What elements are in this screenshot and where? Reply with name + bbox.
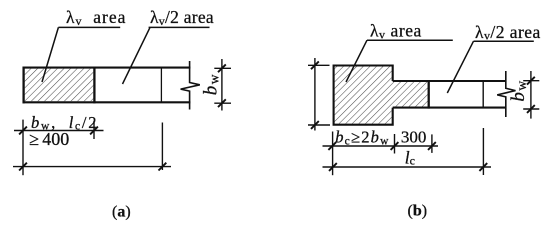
interior line end of lambda-v/2 area (a)	[160, 68, 162, 103]
svg-text:λv area: λv area	[66, 7, 126, 28]
bw dimension top crossbar (b)	[523, 80, 539, 82]
wall left edge (a)	[22, 67, 24, 104]
bw dimension bottom crossbar (a)	[214, 102, 231, 104]
tick at right of dim1 (a)	[90, 127, 98, 135]
leader diagonal for lambda-v area (b)	[346, 40, 367, 82]
leader diagonal for lambda-v/2 area (b)	[447, 41, 473, 93]
leader underline for lambda-v area (b)	[367, 39, 453, 41]
leader underline for lambda-v/2 area (a)	[149, 26, 210, 28]
leader underline for lambda-v/2 area (b)	[474, 40, 534, 42]
left height dimension line (b)	[314, 58, 316, 131]
column outline with wall stub (b)	[334, 66, 506, 125]
break symbol (a)	[181, 61, 200, 110]
tick at bw bottom (a)	[218, 99, 226, 107]
extension line far left (b)	[332, 132, 334, 176]
left dim top crossbar (b)	[308, 64, 330, 66]
tick at lc right (b)	[479, 163, 487, 171]
interior line end of lambda-v/2 area (b)	[482, 81, 484, 108]
hatched area (a) lambda-v zone	[25, 69, 94, 102]
tick at bw bottom (b)	[527, 105, 535, 113]
extension line 300 right (b)	[431, 134, 433, 153]
tick at bc left (b)	[328, 142, 336, 150]
dimension line bc/300 (b)	[323, 145, 439, 147]
dimension line bw,lc/2 (a)	[14, 130, 104, 132]
left dim bottom crossbar (b)	[308, 124, 330, 126]
tick at bw top (a)	[218, 64, 226, 72]
tick at bw top (b)	[527, 77, 535, 85]
extension line column right (b)	[394, 134, 396, 154]
bw dimension line vertical (b)	[530, 71, 532, 119]
tick at left of dim2 (a)	[19, 163, 27, 171]
bw dimension bottom crossbar (b)	[523, 108, 539, 110]
figure (b)	[308, 40, 539, 175]
hatch boundary divider (a)	[93, 67, 95, 104]
extension line left (a)	[22, 120, 24, 176]
bw dimension top crossbar (a)	[214, 67, 231, 69]
bw dimension line vertical (a)	[221, 59, 223, 111]
hatch boundary divider (b)	[428, 80, 430, 109]
tick at bc right / 300 left (b)	[391, 142, 399, 150]
svg-text:≥400: ≥400	[29, 129, 69, 149]
svg-text:300: 300	[401, 128, 427, 147]
figure (a)	[13, 27, 231, 175]
tick at lc left (b)	[329, 163, 337, 171]
extension line lc right (b)	[482, 128, 484, 175]
tick at left dim bottom (b)	[311, 121, 319, 129]
tick at 300 right (b)	[428, 142, 436, 150]
tick at left of dim1 (a)	[19, 127, 27, 135]
extension line middle (a)	[93, 121, 95, 139]
leader diagonal for lambda-v area (a)	[42, 27, 58, 82]
svg-text:λv area: λv area	[370, 21, 422, 42]
extension line right (a)	[161, 123, 163, 171]
svg-text:(b): (b)	[408, 203, 428, 220]
hatched area (b) lambda-v zone: column + wall stub	[335, 67, 428, 124]
svg-text:(a): (a)	[112, 204, 131, 221]
tick at right of dim2 (a)	[159, 163, 167, 171]
tick at left dim top (b)	[311, 61, 319, 69]
wall bottom edge (a)	[23, 101, 191, 103]
lc dimension line (b)	[323, 166, 492, 168]
leader underline for lambda-v area (a)	[58, 26, 120, 28]
lc dimension line (a)	[13, 166, 171, 168]
break symbol (b)	[497, 71, 515, 117]
leader diagonal for lambda-v/2 area (a)	[123, 27, 151, 84]
wall top edge (a)	[23, 67, 191, 69]
